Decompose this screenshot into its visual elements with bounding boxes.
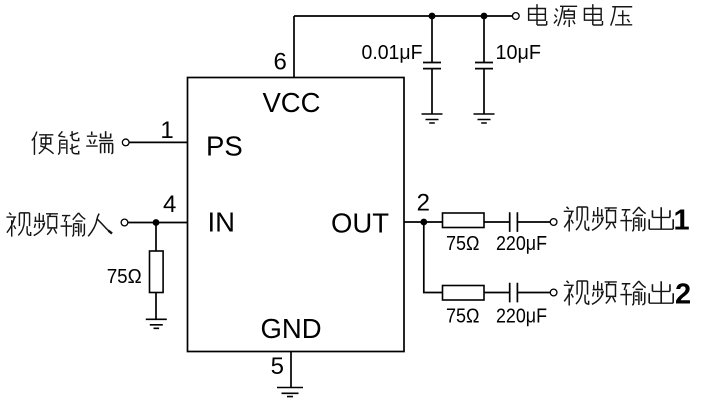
svg-text:0.01μF: 0.01μF bbox=[362, 42, 423, 64]
svg-text:1: 1 bbox=[160, 117, 173, 144]
svg-text:6: 6 bbox=[274, 49, 287, 76]
svg-text:IN: IN bbox=[208, 207, 236, 238]
svg-text:220μF: 220μF bbox=[496, 306, 547, 328]
svg-text:PS: PS bbox=[206, 131, 243, 162]
svg-text:VCC: VCC bbox=[262, 87, 320, 118]
svg-text:4: 4 bbox=[163, 191, 176, 218]
svg-text:5: 5 bbox=[271, 353, 284, 380]
svg-text:75Ω: 75Ω bbox=[107, 266, 142, 288]
svg-text:220μF: 220μF bbox=[496, 233, 547, 255]
svg-text:10μF: 10μF bbox=[496, 42, 542, 64]
svg-text:GND: GND bbox=[260, 313, 321, 344]
svg-text:1: 1 bbox=[674, 205, 690, 237]
svg-text:OUT: OUT bbox=[331, 207, 389, 238]
svg-text:75Ω: 75Ω bbox=[446, 233, 480, 255]
svg-text:2: 2 bbox=[675, 279, 691, 311]
svg-text:2: 2 bbox=[417, 189, 430, 216]
svg-text:75Ω: 75Ω bbox=[446, 306, 480, 328]
